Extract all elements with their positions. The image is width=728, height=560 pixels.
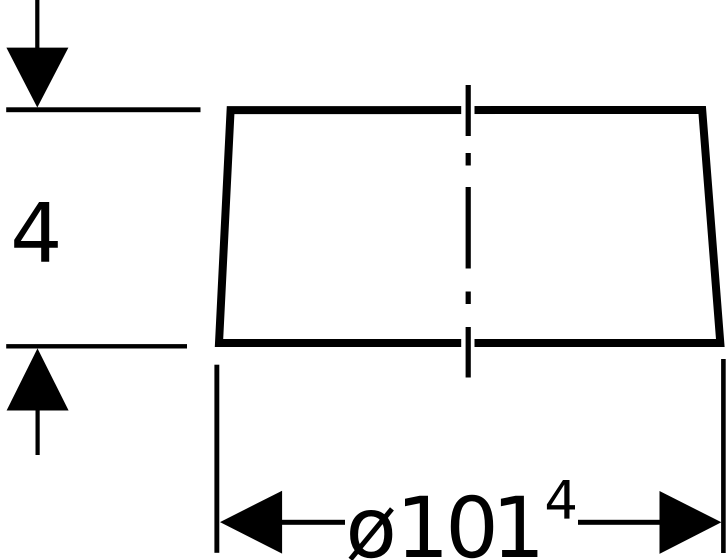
diameter dimension: left extension line [214,365,219,553]
diameter label "ø101": glyph "1" (first) [405,496,442,557]
part outline (conical plate cross-section, trapezoid) [219,110,720,343]
diameter label "ø101": glyph "1" (second) [501,496,538,557]
height dimension: bottom arrow (pointing up) [7,348,69,410]
diameter label "ø101": glyph "ø" [349,507,394,560]
diameter dimension line: right segment [578,520,661,525]
diameter dimension: right extension line [721,359,726,553]
diameter dimension line: left segment [281,520,345,525]
centerline (dash-dot vertical axis) [466,85,471,378]
diameter tolerance superscript "4" [547,480,575,519]
height dimension: top arrow tail [35,0,39,48]
height dimension: top extension line [6,107,200,112]
centerline white casing (gap in outline at axis) [461,100,474,352]
height dimension: top arrow (pointing down) [6,48,68,108]
height dimension: bottom arrow tail [36,410,40,455]
diameter dimension: left arrow (pointing left) [220,491,282,554]
height dimension label "4" [14,202,58,262]
height dimension: bottom extension line [6,344,187,348]
diameter dimension: right arrow (pointing right) [660,491,722,554]
diameter label "ø101": glyph "0" [451,495,493,559]
